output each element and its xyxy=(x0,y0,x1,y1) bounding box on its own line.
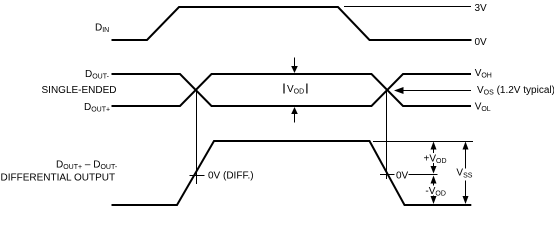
svg-text:DIFFERENTIAL OUTPUT: DIFFERENTIAL OUTPUT xyxy=(1,173,116,184)
arrow VOD top xyxy=(291,58,298,74)
wire vertical line at second crossing xyxy=(386,90,388,179)
wire vertical line at first crossing xyxy=(196,90,198,184)
wire left 0V tick xyxy=(190,175,205,177)
wire top reference line xyxy=(373,141,473,143)
wire DOUT+ waveform xyxy=(112,74,472,106)
arrow -VOD xyxy=(423,176,446,205)
label VOD xyxy=(284,84,307,96)
arrow VOD bottom xyxy=(291,107,298,123)
arrow +VOD xyxy=(422,142,447,174)
arrow VOS leader xyxy=(394,87,471,94)
wire DOUT- waveform xyxy=(112,74,472,106)
wire right 0V tick xyxy=(380,174,395,176)
svg-text:SINGLE-ENDED: SINGLE-ENDED xyxy=(42,85,117,96)
wire 0V reference line right xyxy=(409,174,438,176)
svg-text:3V: 3V xyxy=(475,3,488,14)
wire 3V reference line xyxy=(344,6,471,8)
svg-text:0V (DIFF.): 0V (DIFF.) xyxy=(208,170,254,181)
arrow VSS xyxy=(456,142,475,205)
wire differential output waveform xyxy=(112,141,472,205)
svg-text:0V: 0V xyxy=(475,37,488,48)
svg-text:0V: 0V xyxy=(396,171,409,182)
wire DIN waveform xyxy=(112,7,472,40)
